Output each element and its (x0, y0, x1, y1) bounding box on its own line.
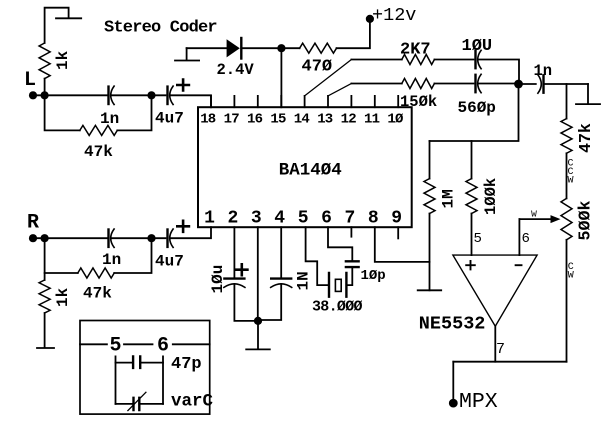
wire box left (115, 356, 117, 404)
svg-text:1: 1 (204, 209, 215, 229)
pin 16 stub (257, 96, 259, 107)
capacitor C10 1n (MPX) (542, 75, 544, 92)
wire 560p to MPX node (478, 83, 519, 85)
wire pot to output (566, 240, 568, 362)
svg-text:1k: 1k (54, 287, 72, 307)
svg-text:MPX: MPX (459, 390, 498, 414)
wire row2 left (351, 83, 401, 85)
svg-text:18: 18 (200, 112, 216, 128)
op-amp U2 NE5532 (453, 255, 537, 326)
svg-text:16: 16 (247, 112, 263, 128)
svg-text:56Øp: 56Øp (458, 99, 496, 117)
node L junction dot (41, 91, 49, 99)
wire 1n to gnd (544, 83, 589, 85)
svg-text:R: R (27, 212, 39, 235)
pin 5 wire to crystal (306, 227, 329, 285)
pin 15 stub (280, 96, 282, 107)
resistor R6 2K7 (402, 55, 435, 65)
wire to 1M top (429, 141, 431, 179)
wire crystal to 10p (346, 268, 352, 285)
resistor R7 150k (402, 79, 435, 89)
capacitor C9 560p (474, 75, 476, 92)
pin 14 stub (304, 96, 306, 107)
pin 18 stub (210, 96, 212, 107)
wire R node to 1k (44, 273, 46, 280)
ground G6 below 1M (418, 289, 442, 291)
svg-text:2: 2 (227, 209, 238, 229)
wire gnd to diode (187, 47, 227, 49)
capacitor C8 10U (474, 51, 476, 68)
svg-text:1ØU: 1ØU (462, 37, 493, 56)
ground G3 below pin3 (246, 321, 270, 350)
capacitor C12 varC (116, 403, 164, 405)
capacitor C1 1n (L) (107, 87, 109, 104)
svg-text:47p: 47p (171, 355, 202, 374)
capacitor C5 10u (224, 277, 244, 279)
node R junction dot (41, 234, 49, 242)
wire op-amp output (494, 326, 496, 362)
potentiometer R9 500k (561, 198, 572, 239)
svg-text:13: 13 (317, 112, 333, 128)
plus mark op-amp (466, 261, 475, 269)
wire output bus (453, 361, 566, 363)
svg-text:7: 7 (344, 209, 355, 229)
wire to 100k top (471, 141, 473, 179)
ground G4 at diode anode (175, 48, 199, 60)
svg-text:5: 5 (109, 335, 121, 358)
pin 7 stub (350, 227, 352, 237)
capacitor C11 47p (116, 362, 164, 364)
node R input dot (29, 234, 37, 242)
pin 12 stub (350, 96, 352, 107)
svg-text:38.ØØØ: 38.ØØØ (312, 299, 363, 316)
resistor R4 47k (R) (78, 268, 114, 278)
capacitor C2 4u7 (L) (166, 87, 168, 104)
node gnd junction dot (254, 317, 262, 325)
wire 47k to pot (566, 153, 568, 198)
node MPX output dot (449, 399, 458, 408)
svg-text:1Øp: 1Øp (361, 268, 386, 284)
wiper arrow 500k (519, 218, 552, 220)
wire box right (162, 356, 164, 404)
plus mark C5 (236, 264, 247, 275)
wire C1 to C2 (111, 94, 166, 96)
svg-text:6: 6 (157, 335, 169, 358)
subcircuit box (80, 321, 210, 415)
svg-text:9: 9 (391, 209, 402, 229)
svg-text:3: 3 (251, 209, 262, 229)
wire to MPX (452, 362, 454, 403)
pin 2 wire (233, 227, 235, 277)
svg-text:15Øk: 15Øk (400, 93, 437, 111)
node diode junction dot (277, 44, 285, 52)
svg-text:14: 14 (294, 112, 310, 128)
wire node down to 1M/100k (430, 84, 519, 141)
wire 150k to 560p (434, 83, 473, 85)
capacitor C7 10p (346, 261, 359, 267)
wire L lower loop (45, 95, 152, 130)
pin 11 stub (374, 96, 376, 107)
svg-text:1n: 1n (102, 251, 121, 269)
pin 4 wire (280, 227, 282, 277)
svg-text:47k: 47k (83, 285, 112, 303)
svg-text:12: 12 (341, 112, 357, 128)
wire 100k to +in (471, 214, 473, 256)
crystal X1 38.000 (329, 273, 346, 297)
svg-text:5: 5 (298, 209, 309, 229)
wire box pin line (80, 343, 210, 345)
svg-text:L: L (24, 69, 36, 92)
wire row1 left (351, 59, 401, 61)
capacitor C4 4u7 (R) (166, 230, 168, 247)
pin 9 stub (397, 227, 399, 238)
wire C3 to C4 (111, 237, 166, 239)
svg-text:2K7: 2K7 (400, 41, 431, 60)
resistor R2 47k (L) (80, 125, 117, 135)
ground G1 top-left (45, 8, 82, 43)
resistor R_L 1k (39, 43, 50, 79)
wire diode to node (241, 47, 299, 49)
pin 6 wire to 10p (328, 227, 352, 260)
svg-text:1k: 1k (54, 50, 72, 70)
svg-text:1M: 1M (440, 189, 458, 208)
pin 8 wire (375, 227, 430, 262)
wire 10U to MPX node (478, 60, 519, 85)
svg-text:2.4V: 2.4V (217, 61, 255, 79)
ground G2 below R 1k (37, 313, 54, 348)
node L mix dot (147, 91, 155, 99)
wire node to 1n (519, 83, 536, 85)
wire 2K7 to 10U (434, 59, 473, 61)
pin 1&#216; stub (397, 96, 399, 107)
svg-text:4u7: 4u7 (155, 110, 184, 128)
wire C2 to pin18 (170, 95, 211, 107)
wire 1k to L node (44, 79, 46, 96)
svg-text:4: 4 (274, 209, 285, 229)
svg-text:1Øu: 1Øu (209, 265, 227, 294)
wire C4 to pin1 (170, 227, 211, 238)
svg-text:17: 17 (224, 112, 240, 128)
svg-text:W: W (531, 209, 537, 220)
svg-text:4u7: 4u7 (155, 253, 184, 271)
svg-text:5ØØk: 5ØØk (577, 200, 596, 240)
svg-text:W: W (567, 176, 573, 187)
pin 17 stub (233, 96, 235, 107)
svg-text:6: 6 (321, 209, 332, 229)
resistor R11 100k (466, 179, 477, 214)
wire -in (518, 219, 520, 255)
svg-text:47k: 47k (84, 143, 113, 161)
wire node to pin15 (280, 48, 282, 107)
minus mark op-amp (516, 264, 522, 266)
svg-text:11: 11 (364, 112, 380, 128)
pin 13 stub (327, 96, 329, 107)
wire 10u to gnd node (234, 284, 258, 321)
svg-text:1Ø: 1Ø (387, 112, 404, 128)
capacitor C6 1N (271, 277, 291, 279)
wire diagonal pin14 (305, 60, 352, 96)
node L input dot (29, 91, 37, 99)
wire 1N to gnd node (258, 284, 281, 320)
capacitor C3 1n (R) (107, 230, 109, 247)
svg-text:Stereo Coder: Stereo Coder (104, 19, 217, 38)
svg-text:1ØØk: 1ØØk (482, 178, 500, 215)
resistor R5 470 (300, 43, 337, 53)
svg-text:+12v: +12v (372, 5, 416, 26)
svg-text:47k: 47k (576, 123, 595, 153)
node R mix dot (147, 234, 155, 242)
svg-text:varC: varC (171, 392, 214, 412)
svg-text:15: 15 (270, 112, 286, 128)
wire L node to C1 (33, 94, 109, 96)
wire 1M to gnd (429, 214, 431, 291)
ground G5 right (576, 84, 600, 104)
svg-text:BA14Ø4: BA14Ø4 (279, 161, 342, 181)
svg-text:W: W (568, 270, 574, 281)
svg-text:1N: 1N (295, 271, 313, 290)
op-amp U1 BA1404 IC body (198, 107, 412, 227)
resistor R8 47k (right) (561, 119, 572, 154)
wire R node to C3 (33, 237, 109, 239)
pin 3 wire (257, 227, 259, 321)
wire to 47k top (566, 84, 568, 119)
diode D1 2.4V (227, 39, 240, 57)
plus mark C4 (177, 221, 189, 232)
node MPX mix dot (514, 80, 523, 89)
node +12v dot (366, 15, 374, 23)
svg-text:47Ø: 47Ø (302, 58, 333, 77)
svg-text:8: 8 (368, 209, 379, 229)
svg-text:NE5532: NE5532 (419, 314, 486, 335)
wire R lower loop (45, 238, 152, 273)
resistor R10 1M (424, 179, 435, 214)
svg-text:1n: 1n (534, 62, 553, 80)
svg-text:5: 5 (474, 231, 482, 247)
plus mark C2 (177, 80, 189, 91)
wire 470 to +12v (337, 19, 370, 48)
svg-text:6: 6 (522, 231, 530, 247)
wire diagonal pin13 (328, 84, 351, 96)
svg-text:1n: 1n (100, 110, 119, 128)
svg-text:7: 7 (496, 341, 505, 358)
